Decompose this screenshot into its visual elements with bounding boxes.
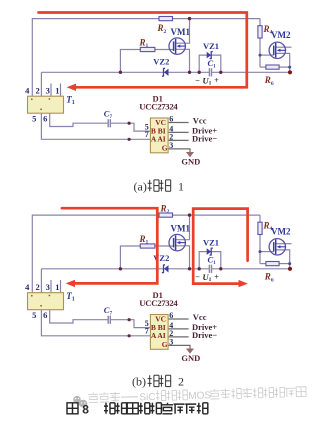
capacitor C1 (stage a) <box>208 68 210 76</box>
svg-text:3: 3 <box>46 282 50 292</box>
svg-text:6: 6 <box>43 310 47 320</box>
svg-text:5: 5 <box>32 310 36 320</box>
svg-text:6: 6 <box>43 114 47 124</box>
caption (b) stage 2 <box>132 375 184 389</box>
resistor R2 body (stage b) <box>159 213 173 217</box>
transistor VM2 (stage b) <box>269 239 286 255</box>
zener diode VZ2 (stage a) <box>162 68 169 76</box>
T1 phase dot a (stage a) <box>31 98 33 100</box>
wire: main rail left section (stage b) <box>41 268 209 270</box>
svg-text:Vcc: Vcc <box>193 312 207 322</box>
wire: U1 pin4 Drive+ (stage b) <box>168 328 189 330</box>
highlight right loop stage b <box>193 209 247 284</box>
wire: R1 to VM1 gate (stage b) <box>155 245 174 247</box>
zener diode VZ1 (stage a) <box>207 52 213 59</box>
svg-text:VM1: VM1 <box>171 27 191 37</box>
transformer T1 body (stage a) <box>28 96 64 113</box>
node rail/R1 (stage a) <box>119 71 122 74</box>
T1 phase dot c (stage b) <box>40 305 42 307</box>
wire: C7 to U1 pin5 (stage a) <box>110 123 150 131</box>
node rail/loop right (stage a) <box>219 71 222 74</box>
resistor R6 body (stage b) <box>266 262 279 266</box>
wire: T1 pin 3 stub (stage b) <box>50 280 52 293</box>
caption (a) stage 1 <box>134 179 185 193</box>
svg-text:A AI: A AI <box>151 331 166 340</box>
T1 phase dot b (stage a) <box>49 98 51 100</box>
wire: R6 left lead (stage b) <box>260 263 266 265</box>
figure caption: 图8 驱动电路的负压原理 <box>67 403 208 417</box>
node pin7 line (stage a) <box>128 138 131 141</box>
node rail end (stage b) <box>288 267 292 271</box>
node VM2 gate (stage a) <box>259 54 262 57</box>
wire: left vertical to T1 pin 4 (stage a) <box>31 18 33 96</box>
node top rail/VM1 drain (stage b) <box>188 213 191 216</box>
svg-text:7: 7 <box>145 327 149 336</box>
node rail/loop left (stage a) <box>198 71 201 74</box>
wire: rail to R1 left (stage b) <box>120 246 140 269</box>
highlight right arrowhead stage b <box>239 280 248 287</box>
node R6/VM2 source (stage b) <box>288 262 291 265</box>
resistor R2 body (stage a) <box>159 17 173 21</box>
wire: T1 pin5 to U1 pin7 (stage b) <box>41 310 150 336</box>
wire: left vertical to T1 pin 4 (stage b) <box>31 215 33 293</box>
wire: right branch R4 chain (stage a) <box>259 19 261 68</box>
wire: U1 pin4 Drive+ (stage a) <box>168 131 189 133</box>
svg-text:UCC27324: UCC27324 <box>139 298 178 308</box>
svg-text:G: G <box>162 340 168 349</box>
wire: U1 pin6 Vcc (stage b) <box>168 318 189 320</box>
highlight loop stage a <box>39 13 247 88</box>
svg-text:SiC: SiC <box>139 392 155 403</box>
svg-text:A AI: A AI <box>151 135 166 144</box>
wire: VM1 source to main rail (stage b) <box>175 246 189 269</box>
svg-text:1: 1 <box>178 179 184 193</box>
wire: T1 pin6 to C7 (stage b) <box>50 310 108 324</box>
svg-text:GND: GND <box>181 353 200 363</box>
svg-text:3: 3 <box>46 86 50 96</box>
ground arrow (stage b) <box>186 349 194 354</box>
capacitor C7 (stage a) <box>107 119 109 127</box>
wire: VM2 source down (stage a) <box>276 53 290 72</box>
wire: rail to R1 left (stage a) <box>120 50 140 73</box>
resistor R1 body (stage b) <box>140 244 155 248</box>
node pin7 line (stage b) <box>128 334 131 337</box>
wire: R6 right lead (stage b) <box>279 263 290 265</box>
wire: U1 pin3 to ground (stage a) <box>168 149 190 152</box>
svg-text:2: 2 <box>178 375 184 389</box>
wire: R1 to VM1 gate (stage a) <box>155 49 174 51</box>
wire: main rail left section (stage a) <box>41 71 209 73</box>
wire: VM1 source to main rail (stage a) <box>175 49 189 72</box>
svg-text:−: − <box>195 272 200 281</box>
resistor R4 body (stage a) <box>258 26 262 38</box>
svg-text:Drive−: Drive− <box>192 133 217 143</box>
zener diode VZ1 (stage b) <box>207 248 213 255</box>
watermark text <box>88 387 306 405</box>
wire: R6 right lead (stage a) <box>279 66 290 68</box>
wire: T1 pin 1 stub (stage a) <box>60 84 62 97</box>
wire: T1 pin 1 stub (stage b) <box>60 280 62 293</box>
wire: main rail right section (stage b) <box>211 268 290 270</box>
wire: T1 pin 2 to main rail (stage a) <box>40 72 42 96</box>
wire: U1 pin6 Vcc (stage a) <box>168 122 189 124</box>
node rail/loop left (stage b) <box>198 267 201 270</box>
wire: VM1 drain to top rail (stage a) <box>175 19 189 44</box>
svg-text:7: 7 <box>145 130 149 139</box>
svg-text:2: 2 <box>35 86 39 96</box>
svg-text:5: 5 <box>32 114 36 124</box>
capacitor C1 (stage b) <box>208 265 210 273</box>
node C7 line (stage a) <box>128 122 131 125</box>
svg-text:4: 4 <box>25 86 30 96</box>
svg-text:1: 1 <box>55 282 59 292</box>
transistor VM1 (stage b) <box>169 234 186 250</box>
ground arrow (stage a) <box>186 152 194 157</box>
svg-text:VM2: VM2 <box>271 226 291 236</box>
svg-text:8: 8 <box>82 403 89 417</box>
resistor R1 body (stage a) <box>140 47 155 51</box>
T1 phase dot b (stage b) <box>49 295 51 297</box>
svg-text:−: − <box>195 76 200 85</box>
node rail/loop right (stage b) <box>219 267 222 270</box>
highlight left loop stage b <box>62 208 157 283</box>
wire: U1 pin2 Drive- (stage a) <box>168 139 189 141</box>
wire: VM2 gate lead (stage a) <box>260 54 274 56</box>
svg-text:G: G <box>162 144 168 153</box>
highlight left arrowhead stage b <box>66 280 75 287</box>
svg-text:3: 3 <box>169 337 173 346</box>
svg-text:VM2: VM2 <box>271 30 291 40</box>
svg-text:+: + <box>214 272 219 281</box>
svg-text:4: 4 <box>25 282 30 292</box>
resistor R6 body (stage a) <box>266 65 279 69</box>
svg-text:1: 1 <box>55 86 59 96</box>
wire: VM1 drain to top rail (stage b) <box>175 215 189 240</box>
wire: VZ1 parallel loop (stage b) <box>199 252 221 269</box>
svg-text:Vcc: Vcc <box>193 115 207 125</box>
wire: U1 pin2 Drive- (stage b) <box>168 336 189 338</box>
wire: T1 pin6 to C7 (stage a) <box>50 113 108 127</box>
wire: T1 pin 3 stub (stage a) <box>50 84 52 97</box>
svg-text:UCC27324: UCC27324 <box>139 102 178 112</box>
wire: T1 pin 2 to main rail (stage b) <box>40 269 42 293</box>
node top rail/VM1 drain (stage a) <box>188 17 191 20</box>
wire: VM2 drain stub (stage b) <box>276 243 292 245</box>
svg-text:VZ1: VZ1 <box>203 41 219 51</box>
transistor VM2 (stage a) <box>269 42 286 58</box>
capacitor C7 (stage b) <box>107 316 109 324</box>
node rail/R1 (stage b) <box>119 267 122 270</box>
transistor VM1 (stage a) <box>169 38 186 54</box>
op-amp/driver IC D1 body (stage a) <box>150 118 168 153</box>
wire: R6 left lead (stage a) <box>260 66 266 68</box>
wire: VM2 gate lead (stage b) <box>260 251 274 253</box>
node rail/VM1 source (stage b) <box>188 267 191 270</box>
svg-text:+: + <box>214 76 219 85</box>
transformer T1 body (stage b) <box>28 293 64 310</box>
wire: T1 pin5 to U1 pin7 (stage a) <box>41 113 150 139</box>
wire: VM2 drain stub (stage a) <box>276 46 292 48</box>
node C7 line (stage b) <box>128 318 131 321</box>
wire: main rail right section (stage a) <box>211 71 290 73</box>
node rail end (stage a) <box>288 70 292 74</box>
wire: top rail (stage b) <box>32 214 260 216</box>
wire: right branch R4 chain (stage b) <box>259 215 261 264</box>
svg-text:(b): (b) <box>132 375 146 389</box>
resistor R4 body (stage b) <box>258 222 262 234</box>
wire: VZ1 parallel loop (stage a) <box>199 55 221 72</box>
svg-text:MOS: MOS <box>188 390 211 402</box>
T1 phase dot a (stage b) <box>31 295 33 297</box>
node rail/VM1 source (stage a) <box>188 71 191 74</box>
wire: top rail (stage a) <box>32 18 260 20</box>
svg-text:VZ2: VZ2 <box>153 253 169 263</box>
svg-text:6: 6 <box>169 114 173 123</box>
op-amp/driver IC D1 body (stage b) <box>150 315 168 350</box>
svg-text:Drive−: Drive− <box>192 330 217 340</box>
svg-text:6: 6 <box>169 311 173 320</box>
zener diode VZ2 (stage b) <box>162 265 169 273</box>
node VM2 gate (stage b) <box>259 250 262 253</box>
svg-text:VM1: VM1 <box>171 224 191 234</box>
wire: U1 pin3 to ground (stage b) <box>168 345 190 348</box>
wire: VM2 source down (stage b) <box>276 250 290 269</box>
svg-text:VZ2: VZ2 <box>153 57 169 67</box>
svg-text:(a): (a) <box>134 179 147 193</box>
T1 phase dot c (stage a) <box>40 108 42 110</box>
svg-text:2: 2 <box>35 282 39 292</box>
node R6/VM2 source (stage a) <box>288 66 291 69</box>
svg-text:VZ1: VZ1 <box>203 237 219 247</box>
watermark icon <box>73 396 87 409</box>
svg-text:GND: GND <box>181 156 200 166</box>
wire: C7 to U1 pin5 (stage b) <box>110 320 150 328</box>
highlight arrowhead stage a <box>67 84 76 91</box>
svg-text:3: 3 <box>169 141 173 150</box>
